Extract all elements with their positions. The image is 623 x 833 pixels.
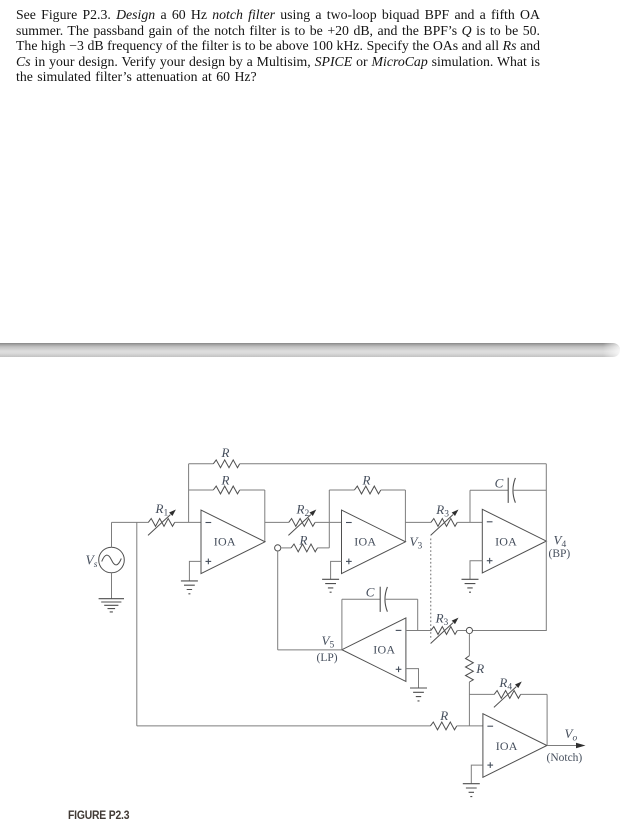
wire U4 plus to ground bbox=[406, 669, 419, 688]
op-amp U4 (IOA, mirrored) bbox=[342, 618, 406, 682]
wire Vs bottom to ground bbox=[111, 573, 113, 599]
resistor R (outer feedback, top) bbox=[213, 460, 239, 468]
wire R2 to op-amp U2 minus bbox=[315, 521, 341, 523]
wire U2 feedback right + output riser bbox=[381, 490, 406, 542]
wire U1 output to R2 bbox=[265, 521, 289, 523]
svg-text:R4: R4 bbox=[498, 675, 512, 693]
capacitor C (U3 feedback) bbox=[508, 478, 515, 503]
svg-text:IOA: IOA bbox=[496, 739, 518, 753]
svg-text:R: R bbox=[221, 445, 230, 460]
resistor R (vertical, to summer) bbox=[466, 656, 474, 682]
wire riser to top resistor R bbox=[189, 463, 214, 465]
wire riser to second resistor R bbox=[189, 489, 214, 491]
wire C to V4 riser bbox=[513, 489, 547, 491]
svg-text:Vs: Vs bbox=[86, 553, 98, 571]
wire node down to vertical R bbox=[468, 634, 470, 656]
wire U5 plus to ground bbox=[471, 765, 483, 783]
resistor R3 (variable, lower) bbox=[431, 618, 459, 644]
resistor R (summer input) bbox=[430, 722, 456, 730]
wire V5 output run bbox=[278, 649, 342, 651]
svg-text:R3: R3 bbox=[435, 502, 449, 520]
resistor R (U2 feedback) bbox=[354, 486, 380, 494]
op-amp U5 (IOA) bbox=[483, 714, 547, 778]
svg-text:(LP): (LP) bbox=[317, 652, 338, 664]
wire mid R up to U2 minus node bbox=[318, 490, 330, 548]
wire U1 plus to ground bbox=[189, 561, 201, 580]
wire U4 C-loop left riser bbox=[342, 599, 380, 650]
resistor R4 (variable) bbox=[494, 682, 522, 708]
svg-text:(Notch): (Notch) bbox=[547, 752, 583, 764]
dashed gang line between R3 and R3 bbox=[430, 539, 432, 641]
svg-text:R: R bbox=[299, 532, 308, 547]
svg-text:R1: R1 bbox=[155, 501, 169, 519]
svg-text:(BP): (BP) bbox=[549, 548, 571, 560]
wire U2 plus to ground bbox=[331, 561, 342, 579]
resistor R3 (variable, upper) bbox=[431, 510, 459, 536]
ground for U2 bbox=[322, 579, 339, 592]
wire U1 output riser bbox=[264, 490, 266, 542]
svg-text:IOA: IOA bbox=[214, 535, 236, 549]
wire outer loop bottom run bbox=[137, 725, 431, 727]
resistor R2 (variable) bbox=[288, 510, 316, 536]
wire node to mid resistor R bbox=[281, 547, 291, 549]
svg-text:C: C bbox=[495, 475, 504, 490]
ground for U4 bbox=[410, 688, 427, 701]
ground for Vs bbox=[99, 599, 124, 612]
svg-text:R: R bbox=[475, 661, 484, 676]
wire V4 output bus down and left to node bbox=[473, 464, 547, 631]
svg-text:V3: V3 bbox=[410, 534, 423, 552]
node junction at U1 output tap bbox=[275, 545, 281, 551]
capacitor C (U4 feedback) bbox=[380, 587, 387, 612]
wire node circle down to V5 output bbox=[277, 551, 279, 650]
wire U3 minus node up to C bbox=[470, 490, 508, 522]
wire R3 to op-amp U3 minus bbox=[457, 521, 482, 523]
wire top feedback long run to V4 bbox=[240, 463, 547, 465]
wire outer loop down-left bbox=[136, 522, 138, 726]
wire R3 lower to node bbox=[457, 630, 466, 632]
wire C to U4 minus drop bbox=[385, 599, 418, 630]
svg-text:R: R bbox=[221, 473, 230, 488]
output wire with arrow Vo bbox=[547, 743, 585, 749]
svg-text:V5: V5 bbox=[322, 633, 335, 651]
svg-text:Vo: Vo bbox=[565, 726, 578, 744]
op-amp U1 (IOA) bbox=[201, 510, 265, 574]
wire U2 output to R3 bbox=[405, 521, 431, 523]
svg-text:IOA: IOA bbox=[495, 535, 517, 549]
wire minus-node riser bbox=[188, 464, 190, 523]
svg-text:IOA: IOA bbox=[373, 642, 395, 656]
resistor R (LP loop) bbox=[291, 544, 317, 552]
voltage source Vs bbox=[99, 547, 125, 573]
wire summer R to U5 minus bbox=[457, 725, 483, 727]
svg-text:C: C bbox=[366, 584, 375, 599]
wire input Vs to R1 bbox=[112, 521, 149, 523]
svg-text:R3: R3 bbox=[435, 610, 449, 628]
wire R4 to U5 output riser bbox=[521, 694, 548, 745]
wire Vs top to input node bbox=[111, 522, 113, 547]
resistor R (U1 feedback) bbox=[213, 486, 239, 494]
resistor R1 (variable) bbox=[148, 510, 176, 536]
op-amp U2 (IOA) bbox=[342, 510, 406, 574]
wire U3 plus to ground bbox=[470, 561, 482, 579]
wire U4 minus to R3 lower bbox=[406, 630, 431, 632]
wire to R4 bbox=[469, 693, 494, 695]
op-amp U3 (IOA) bbox=[482, 509, 546, 573]
ground for U5 bbox=[463, 784, 480, 797]
svg-text:IOA: IOA bbox=[354, 535, 376, 549]
wire R1 to op-amp U1 minus bbox=[175, 521, 201, 523]
svg-text:R2: R2 bbox=[296, 502, 310, 520]
wire U2 feedback left bbox=[329, 489, 354, 491]
wire vertical R to U5 minus bbox=[468, 682, 470, 726]
svg-text:R: R bbox=[439, 708, 448, 723]
ground for U1 bbox=[181, 581, 198, 594]
svg-text:R: R bbox=[362, 473, 371, 488]
ground for U3 bbox=[462, 579, 479, 592]
wire second R to U1 output riser bbox=[240, 489, 265, 491]
node junction V4 bus bbox=[466, 627, 472, 633]
